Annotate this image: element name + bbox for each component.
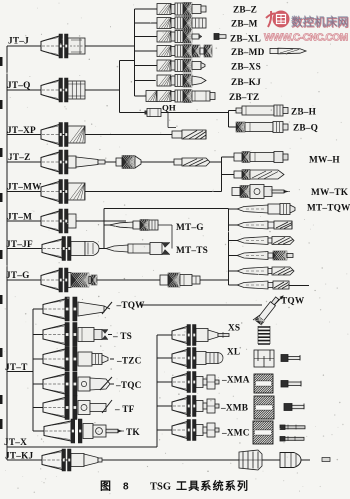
svg-text:数控机床网: 数控机床网: [291, 15, 349, 29]
svg-text:图: 图: [100, 480, 111, 493]
svg-text:XL: XL: [227, 348, 240, 358]
svg-text:QH: QH: [162, 103, 176, 113]
svg-text:ZB–MD: ZB–MD: [231, 48, 265, 58]
svg-text:JT–Q: JT–Q: [7, 81, 31, 91]
svg-text:ZB–KJ: ZB–KJ: [231, 78, 261, 88]
svg-text:JT–MW: JT–MW: [7, 183, 42, 193]
svg-text:MT–TQW: MT–TQW: [307, 204, 350, 214]
svg-text:–XMA: –XMA: [221, 376, 250, 386]
svg-text:WWW.C-CNC.COM: WWW.C-CNC.COM: [264, 33, 348, 44]
svg-text:ZB–M: ZB–M: [231, 20, 258, 30]
svg-text:ZB–TZ: ZB–TZ: [229, 93, 259, 103]
svg-text:JT–JF: JT–JF: [6, 240, 33, 250]
svg-text:– TS: – TS: [112, 332, 132, 342]
svg-text:ZB–Z: ZB–Z: [233, 6, 257, 16]
svg-text:TSG: TSG: [150, 482, 171, 493]
svg-text:JT–M: JT–M: [7, 213, 32, 223]
svg-text:ZB–H: ZB–H: [291, 108, 317, 118]
svg-text:JT–G: JT–G: [6, 271, 30, 281]
svg-text:–TZC: –TZC: [116, 357, 142, 367]
svg-text:MW–TK: MW–TK: [311, 188, 349, 198]
svg-text:JT–T: JT–T: [5, 363, 28, 373]
svg-text:JT–X: JT–X: [4, 438, 27, 448]
svg-text:ZB–XL: ZB–XL: [230, 35, 261, 45]
svg-text:TK: TK: [126, 428, 140, 438]
svg-text:JT–Z: JT–Z: [8, 153, 31, 163]
svg-text:ZB–Q: ZB–Q: [293, 124, 318, 134]
svg-text:MW–H: MW–H: [309, 156, 340, 166]
svg-text:ZB–XS: ZB–XS: [231, 63, 261, 73]
svg-text:8: 8: [123, 482, 129, 493]
svg-text:MT–G: MT–G: [176, 223, 204, 233]
svg-text:XS: XS: [228, 324, 240, 334]
svg-text:–TQC: –TQC: [115, 381, 142, 391]
svg-text:–TQW: –TQW: [116, 301, 146, 311]
svg-text:–XMB: –XMB: [220, 404, 248, 414]
svg-text:JT–J: JT–J: [8, 37, 29, 47]
svg-text:JT–KJ: JT–KJ: [5, 452, 34, 462]
svg-text:MT–TS: MT–TS: [176, 246, 208, 256]
svg-text:– TF: – TF: [114, 405, 135, 415]
svg-text:JT–XP: JT–XP: [7, 126, 36, 136]
svg-text:工具系统系列: 工具系统系列: [176, 479, 249, 493]
svg-text:–XMC: –XMC: [221, 429, 250, 439]
svg-text:TQW: TQW: [281, 297, 305, 307]
